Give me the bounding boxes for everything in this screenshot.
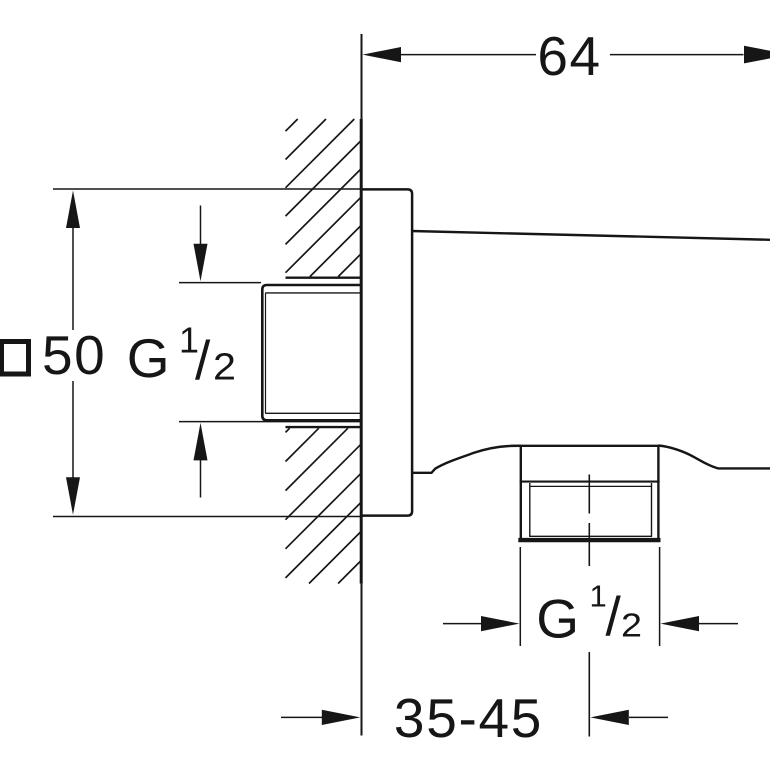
svg-text:G: G bbox=[127, 327, 170, 389]
svg-text:50: 50 bbox=[42, 324, 106, 386]
svg-text:2: 2 bbox=[621, 607, 642, 644]
svg-text:35-45: 35-45 bbox=[394, 687, 543, 749]
svg-text:/: / bbox=[195, 329, 211, 391]
svg-text:G: G bbox=[536, 588, 579, 650]
svg-text:2: 2 bbox=[213, 347, 236, 389]
svg-text:64: 64 bbox=[537, 25, 601, 87]
svg-text:/: / bbox=[606, 585, 622, 647]
svg-text:1: 1 bbox=[590, 579, 607, 614]
